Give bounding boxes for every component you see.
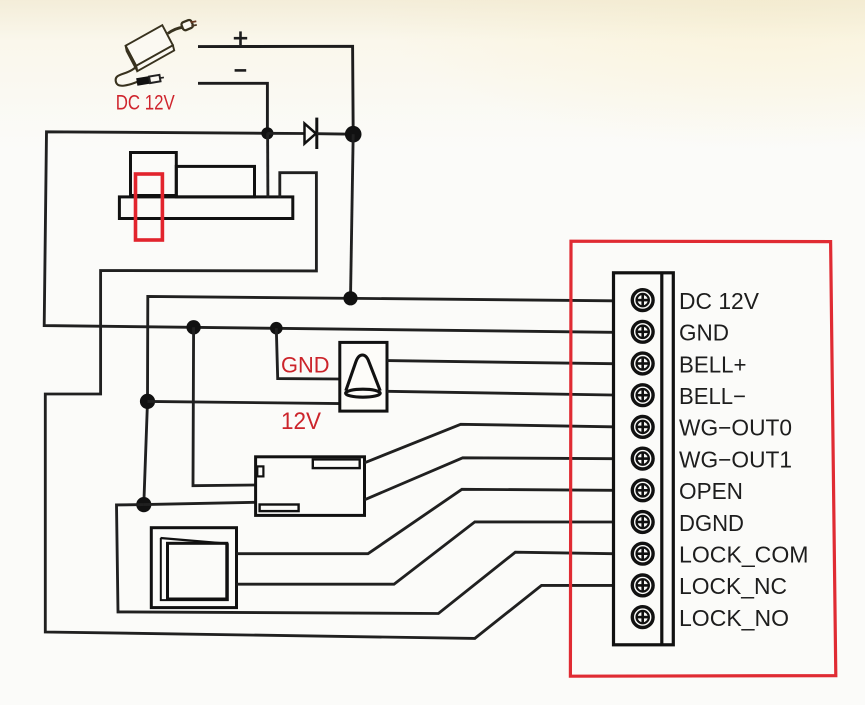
svg-text:LOCK_COM: LOCK_COM <box>679 542 809 568</box>
wire 12V to LOCK_COM <box>117 505 613 614</box>
svg-text:BELL+: BELL+ <box>679 351 747 377</box>
screw terminal 8 (DGND) <box>632 512 653 533</box>
diode D1 <box>305 118 317 149</box>
svg-text:LOCK_NO: LOCK_NO <box>679 605 789 631</box>
wire WG-OUT1 <box>365 458 613 500</box>
svg-text:LOCK_NC: LOCK_NC <box>679 573 787 599</box>
lock highlight (red rectangle) <box>136 174 163 240</box>
screw terminal 7 (OPEN) <box>632 480 653 501</box>
node GND-reader junction <box>186 320 200 334</box>
node minus-diode junction <box>261 127 273 139</box>
red frame <box>570 241 835 676</box>
exit button <box>151 528 236 608</box>
wire plus <box>198 46 353 134</box>
svg-text:OPEN: OPEN <box>679 478 743 504</box>
screw terminal 4 (BELL-) <box>632 385 653 406</box>
node 12V-reader junction <box>136 497 151 512</box>
node DC12V junction <box>343 291 357 305</box>
wire diode anode <box>267 132 304 135</box>
screw terminal 9 (LOCK_COM) <box>632 543 653 564</box>
svg-text:WG−OUT0: WG−OUT0 <box>679 415 792 441</box>
wire BELL- <box>387 391 612 395</box>
wire GND to reader <box>193 327 256 485</box>
wire DGND <box>237 522 613 584</box>
svg-text:GND: GND <box>281 352 330 377</box>
screw terminal 5 (WG-OUT0) <box>632 417 653 438</box>
screw terminal 3 (BELL+) <box>632 353 653 374</box>
wire GND left loop <box>44 132 612 332</box>
svg-text:DC 12V: DC 12V <box>116 91 175 114</box>
screw terminal 2 (GND) <box>632 321 653 342</box>
card reader <box>256 457 365 516</box>
svg-text:DGND: DGND <box>679 510 744 536</box>
node GND-bell junction <box>270 322 283 335</box>
wire lock to minus node <box>266 133 269 197</box>
screw terminal 6 (WG-OUT1) <box>632 448 653 469</box>
svg-text:GND: GND <box>679 320 729 346</box>
electric lock <box>119 153 292 219</box>
wire minus <box>198 83 267 133</box>
svg-text:BELL−: BELL− <box>679 383 746 409</box>
wire WG-OUT0 <box>365 424 613 463</box>
wire 12V to bell <box>148 401 340 403</box>
screw terminal 10 (LOCK_NC) <box>632 575 653 596</box>
doorbell <box>340 342 387 411</box>
svg-text:WG−OUT1: WG−OUT1 <box>679 446 792 472</box>
wire 12V to reader <box>144 502 256 504</box>
svg-text:12V: 12V <box>281 408 321 435</box>
screw terminal 1 (DC 12V) <box>632 290 653 311</box>
wire plus junction to DC12V line <box>351 134 354 298</box>
node diode-plus junction <box>345 126 362 143</box>
plus terminal label <box>234 31 247 45</box>
minus terminal label <box>235 69 247 72</box>
wire DC 12V <box>144 296 612 504</box>
power adapter <box>116 19 197 86</box>
svg-text:DC 12V: DC 12V <box>679 288 760 314</box>
node 12V-bell junction <box>140 394 155 409</box>
wire lock to LOCK_NC <box>45 173 612 639</box>
screw terminal 11 (LOCK_NO) <box>632 607 653 628</box>
wire diode cathode <box>317 132 353 135</box>
wire OPEN <box>237 489 613 553</box>
terminal block <box>614 273 674 645</box>
wire BELL+ <box>387 361 612 364</box>
wire GND to bell <box>276 328 340 379</box>
